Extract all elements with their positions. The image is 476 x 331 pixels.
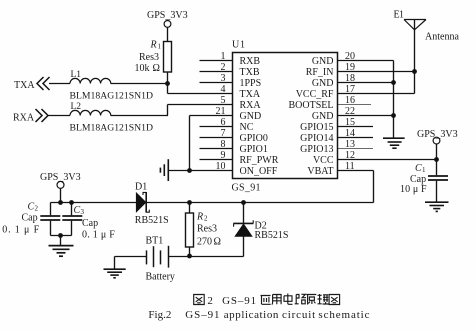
svg-text:C: C	[415, 163, 422, 174]
svg-text:BLM18AG121SN1D: BLM18AG121SN1D	[70, 91, 154, 101]
svg-text:RXA: RXA	[240, 100, 262, 111]
svg-text:3: 3	[81, 208, 85, 216]
svg-text:1: 1	[221, 51, 226, 62]
svg-text:RF_IN: RF_IN	[306, 67, 334, 78]
svg-text:20: 20	[345, 51, 355, 62]
svg-text:Cap: Cap	[22, 213, 38, 224]
svg-text:RXB: RXB	[240, 56, 261, 67]
svg-text:BT1: BT1	[146, 236, 164, 247]
svg-text:1: 1	[158, 43, 162, 51]
svg-text:11: 11	[345, 161, 355, 172]
svg-text:NC: NC	[240, 122, 254, 133]
svg-text:10k: 10k	[135, 63, 150, 74]
svg-text:application: application	[224, 309, 279, 321]
svg-text:1PPS: 1PPS	[240, 78, 262, 89]
svg-text:RXA: RXA	[13, 113, 35, 124]
svg-text:C: C	[74, 205, 81, 216]
svg-text:D1: D1	[135, 182, 147, 193]
svg-text:4: 4	[221, 84, 226, 95]
svg-text:Ω: Ω	[153, 63, 160, 74]
svg-text:RF_PWR: RF_PWR	[240, 155, 279, 166]
svg-text:GPIO1: GPIO1	[240, 144, 268, 155]
svg-text:ON_OFF: ON_OFF	[240, 166, 278, 177]
svg-text:VCC_RF: VCC_RF	[296, 89, 334, 100]
svg-text:R: R	[150, 40, 157, 51]
svg-text:10 μ F: 10 μ F	[400, 184, 427, 195]
svg-text:Ω: Ω	[214, 237, 221, 248]
svg-text:2: 2	[221, 62, 226, 73]
svg-text:TXA: TXA	[14, 80, 35, 91]
svg-text:6: 6	[221, 117, 226, 128]
svg-text:GPS_3V3: GPS_3V3	[147, 10, 188, 21]
svg-text:Fig.2: Fig.2	[148, 309, 171, 321]
svg-text:13: 13	[345, 139, 355, 150]
svg-text:GND: GND	[240, 111, 262, 122]
svg-text:GND: GND	[312, 78, 334, 89]
svg-text:15: 15	[345, 117, 355, 128]
svg-text:Battery: Battery	[146, 272, 175, 283]
svg-text:L2: L2	[71, 102, 82, 112]
svg-text:U1: U1	[232, 40, 245, 51]
svg-text:7: 7	[221, 128, 226, 139]
svg-text:16: 16	[345, 95, 355, 106]
svg-text:R: R	[196, 212, 203, 223]
svg-text:GPS_3V3: GPS_3V3	[417, 129, 458, 140]
svg-text:circuit: circuit	[282, 309, 315, 321]
svg-text:TXA: TXA	[240, 89, 261, 100]
svg-text:GS–91: GS–91	[185, 309, 219, 321]
svg-text:RB521S: RB521S	[135, 215, 169, 226]
svg-text:VCC: VCC	[313, 155, 334, 166]
svg-text:RB521S: RB521S	[255, 230, 289, 241]
svg-text:2: 2	[207, 295, 213, 307]
svg-text:1: 1	[422, 166, 426, 174]
svg-text:GS_91: GS_91	[232, 183, 261, 194]
svg-text:schematic: schematic	[318, 309, 369, 321]
svg-text:VBAT: VBAT	[307, 166, 333, 177]
svg-text:GPIO14: GPIO14	[300, 133, 333, 144]
svg-text:0. 1 μ F: 0. 1 μ F	[2, 225, 39, 236]
svg-text:BOOTSEL: BOOTSEL	[289, 100, 334, 111]
svg-text:GPIO15: GPIO15	[300, 122, 333, 133]
svg-text:0. 1 μ F: 0. 1 μ F	[82, 230, 115, 241]
svg-text:2: 2	[204, 215, 208, 223]
svg-text:Cap: Cap	[82, 218, 98, 229]
svg-text:8: 8	[221, 139, 226, 150]
svg-text:2: 2	[35, 205, 39, 213]
svg-text:GS–91: GS–91	[222, 295, 256, 307]
svg-text:Res3: Res3	[139, 52, 159, 63]
svg-text:5: 5	[221, 95, 226, 106]
svg-text:TXB: TXB	[240, 67, 260, 78]
svg-text:Antenna: Antenna	[425, 32, 459, 43]
svg-text:GPIO13: GPIO13	[300, 144, 333, 155]
svg-text:E1: E1	[394, 10, 405, 21]
svg-text:L1: L1	[71, 70, 82, 80]
svg-text:14: 14	[345, 128, 355, 139]
svg-text:9: 9	[221, 150, 226, 161]
svg-text:GPIO0: GPIO0	[240, 133, 268, 144]
svg-text:270: 270	[197, 237, 212, 248]
svg-text:GND: GND	[312, 111, 334, 122]
svg-text:18: 18	[345, 73, 355, 84]
svg-text:21: 21	[216, 106, 226, 117]
svg-text:17: 17	[345, 84, 355, 95]
svg-text:GPS_3V3: GPS_3V3	[40, 172, 81, 183]
svg-text:12: 12	[345, 150, 355, 161]
svg-text:19: 19	[345, 62, 355, 73]
svg-text:3: 3	[221, 73, 226, 84]
svg-text:22: 22	[345, 106, 355, 117]
svg-text:C: C	[28, 202, 35, 213]
svg-text:BLM18AG121SN1D: BLM18AG121SN1D	[70, 123, 154, 133]
svg-text:Res3: Res3	[197, 224, 217, 235]
svg-text:GND: GND	[312, 56, 334, 67]
svg-text:10: 10	[216, 161, 226, 172]
